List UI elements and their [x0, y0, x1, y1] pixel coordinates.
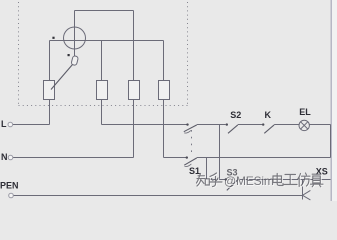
svg-text:N: N [1, 152, 8, 162]
svg-text:L: L [1, 119, 7, 129]
svg-text:S2: S2 [230, 110, 241, 120]
svg-text:K: K [265, 110, 272, 120]
svg-text:PEN: PEN [0, 180, 19, 190]
svg-text:S1: S1 [189, 166, 200, 176]
svg-text:EL: EL [299, 107, 311, 117]
